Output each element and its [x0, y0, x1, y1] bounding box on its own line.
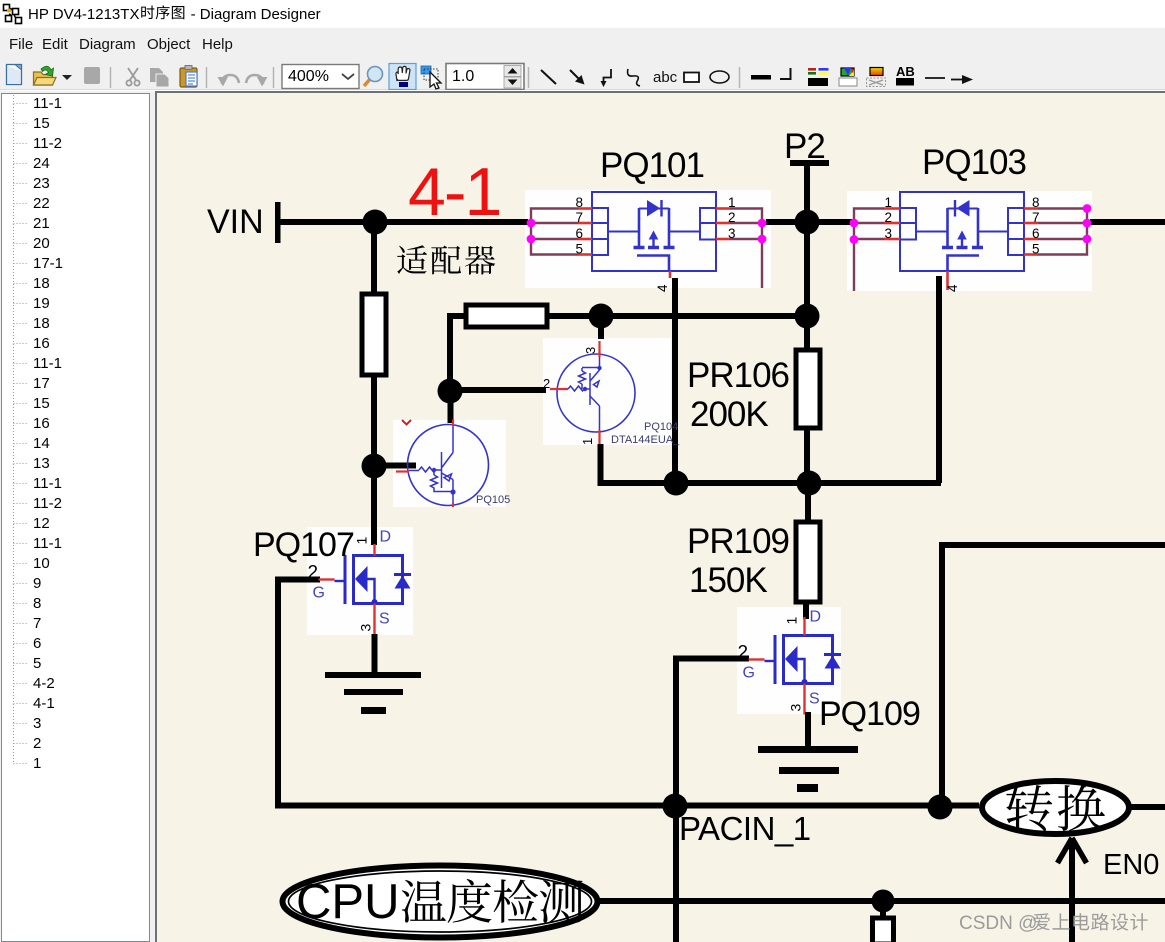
svg-text:2: 2: [543, 376, 550, 391]
svg-text:PQ101: PQ101: [600, 146, 704, 185]
svg-text:1: 1: [580, 438, 595, 445]
svg-text:1: 1: [784, 617, 800, 625]
wire PQ109 gate: [673, 656, 749, 662]
svg-text:8: 8: [33, 595, 41, 612]
svg-text:7: 7: [1032, 210, 1040, 225]
wire PQ109 source to ground: [805, 712, 811, 749]
svg-text:2: 2: [738, 643, 749, 664]
svg-text:CSDN @: CSDN @: [959, 913, 1037, 934]
svg-text:1.0: 1.0: [452, 68, 474, 85]
svg-text:18: 18: [33, 275, 50, 292]
svg-text:6: 6: [575, 226, 583, 241]
wire PQ101 to P2: [766, 219, 852, 225]
svg-text:11-1: 11-1: [33, 535, 62, 552]
node VIN junction: [363, 210, 388, 235]
svg-text:PQ107: PQ107: [253, 526, 354, 564]
svg-text:2: 2: [308, 563, 319, 584]
svg-text:11-1: 11-1: [33, 95, 62, 112]
resistor (bottom, cut off): [873, 918, 894, 942]
svg-text:PACIN_1: PACIN_1: [679, 810, 811, 847]
svg-text:8: 8: [1032, 195, 1040, 210]
svg-text:11-1: 11-1: [33, 475, 62, 492]
wire P2 down to PR106: [804, 222, 810, 351]
resistor (left vertical): [362, 294, 386, 375]
svg-text:2: 2: [884, 210, 892, 225]
VIN terminal bar: [275, 202, 281, 243]
transistor PQ104 (DTA144EUA digital PNP): [543, 341, 680, 446]
svg-text:4-1: 4-1: [408, 154, 500, 230]
svg-text:EN0: EN0: [1103, 849, 1159, 881]
svg-text:1: 1: [884, 195, 892, 210]
PQ104 datasheet image background: [543, 338, 671, 445]
svg-text:5: 5: [575, 242, 583, 257]
wire PR106 to junction: [804, 427, 810, 483]
svg-text:3: 3: [583, 347, 598, 354]
resistor (top horizontal): [466, 305, 547, 327]
svg-text:PR109: PR109: [687, 522, 789, 561]
resistor PR109: [796, 522, 820, 602]
wire PQ103 pin4 down: [936, 276, 942, 483]
svg-text:4-2: 4-2: [33, 675, 55, 692]
svg-text:3: 3: [33, 715, 41, 732]
svg-text:2: 2: [33, 735, 41, 752]
ground under PQ109: [758, 746, 858, 792]
svg-text:1: 1: [354, 537, 370, 545]
svg-text:14: 14: [33, 435, 50, 452]
PQ105 datasheet image background: [393, 420, 506, 507]
svg-text:2: 2: [728, 210, 736, 225]
wire right elbow down to PACIN_1: [939, 542, 945, 807]
node PQ104 base junction: [438, 379, 463, 404]
transistor PQ105 (digital PNP): [396, 420, 510, 508]
node junction to PQ105: [362, 454, 387, 479]
svg-text:6: 6: [1032, 226, 1040, 241]
node PACIN_1 right junction: [928, 795, 953, 820]
node P2/PR106 top junction: [795, 304, 820, 329]
svg-text:11-1: 11-1: [33, 355, 62, 372]
wire junction down to PQ105 collector: [448, 391, 454, 423]
wire junction to PQ104 base: [450, 387, 546, 393]
svg-text:19: 19: [33, 295, 50, 312]
wire PQ104 pin1 down: [598, 444, 604, 483]
svg-text:16: 16: [33, 335, 50, 352]
node bottom row junction 1: [664, 471, 689, 496]
svg-text:D: D: [810, 609, 822, 626]
svg-text:6: 6: [33, 635, 41, 652]
PQ103 datasheet image background: [847, 191, 1092, 291]
svg-text:200K: 200K: [690, 395, 768, 434]
svg-text:PQ105: PQ105: [476, 494, 510, 506]
wire VIN to PQ101: [280, 219, 528, 225]
node P2 junction: [795, 210, 820, 235]
svg-text:3: 3: [728, 226, 736, 241]
transistor PQ103 (dual MOSFET package, mirrored): [850, 143, 1092, 292]
svg-text:8: 8: [575, 195, 583, 210]
wire resistor to PQ107 drain: [371, 374, 377, 545]
svg-text:5: 5: [33, 655, 41, 672]
svg-text:DTA144EUA_: DTA144EUA_: [611, 434, 680, 446]
node junction on CPU wire: [872, 890, 895, 913]
wire PQ101 pin4 down: [672, 278, 678, 483]
node PACIN_1 junction: [663, 794, 688, 819]
svg-text:CPU: CPU: [296, 875, 399, 929]
svg-text:400%: 400%: [288, 68, 329, 85]
wire PACIN_1 net: [275, 803, 979, 809]
svg-text:18: 18: [33, 315, 50, 332]
svg-text:3: 3: [788, 704, 804, 712]
svg-text:11-2: 11-2: [33, 135, 62, 152]
svg-text:11-2: 11-2: [33, 495, 62, 512]
wire stub to small resistor: [880, 908, 886, 919]
wire bottom row horizontal: [598, 480, 942, 486]
svg-text:PQ103: PQ103: [922, 143, 1026, 182]
svg-text:13: 13: [33, 455, 50, 472]
svg-text:4-1: 4-1: [33, 695, 55, 712]
svg-text:PQ109: PQ109: [819, 695, 920, 733]
wire PQ107 source to ground: [372, 634, 378, 675]
svg-text:7: 7: [575, 210, 583, 225]
svg-text:7: 7: [33, 615, 41, 632]
flowchart ellipse CPU温度检测: [283, 866, 598, 938]
svg-text:PQ104: PQ104: [644, 421, 678, 433]
wire PQ103 to right edge: [1090, 219, 1165, 225]
svg-text:4: 4: [945, 284, 960, 292]
svg-text:1: 1: [33, 755, 41, 772]
svg-text:G: G: [743, 665, 755, 682]
svg-text:17: 17: [33, 375, 50, 392]
svg-text:15: 15: [33, 395, 50, 412]
svg-text:12: 12: [33, 515, 50, 532]
P2 terminal bar: [790, 160, 829, 166]
svg-text:20: 20: [33, 235, 50, 252]
transistor PQ107 (N-MOSFET): [253, 526, 411, 635]
wire junction to PR109: [805, 483, 811, 523]
svg-text:D: D: [380, 529, 392, 546]
svg-text:22: 22: [33, 195, 50, 212]
wire top junction down to PQ104 pin3: [598, 316, 604, 339]
svg-text:5: 5: [1032, 242, 1040, 257]
label 适配器: [397, 245, 427, 274]
svg-text:3: 3: [884, 226, 892, 241]
svg-text:150K: 150K: [689, 561, 767, 600]
svg-text:9: 9: [33, 575, 41, 592]
svg-text:21: 21: [33, 215, 50, 232]
wire PQ107 gate down to PACIN_1: [275, 577, 281, 808]
svg-text:10: 10: [33, 555, 50, 572]
svg-text:23: 23: [33, 175, 50, 192]
svg-text:1: 1: [728, 195, 736, 210]
PQ109 datasheet image background: [737, 607, 841, 714]
resistor PR106: [796, 350, 820, 428]
svg-text:24: 24: [33, 155, 50, 172]
svg-text:17-1: 17-1: [33, 255, 63, 272]
PQ107 datasheet image background: [307, 527, 413, 635]
svg-text:15: 15: [33, 115, 50, 132]
wire VIN junction down to resistor: [371, 222, 377, 295]
wire junction to PQ105 base: [374, 463, 416, 469]
wire 转换 to right edge: [1129, 804, 1165, 810]
svg-text:VIN: VIN: [207, 203, 264, 241]
wire elbow horizontal to resistor: [447, 313, 467, 319]
svg-text:AB: AB: [896, 64, 915, 79]
wire PQ109 gate down to PACIN_1: [673, 656, 679, 942]
PQ101 datasheet image background: [525, 190, 771, 288]
arrow EN0 into 转换: [1058, 838, 1073, 863]
transistor PQ101 (dual MOSFET package): [527, 146, 767, 292]
svg-text:G: G: [313, 585, 325, 602]
svg-text:S: S: [379, 611, 390, 628]
ground under PQ107: [325, 672, 421, 714]
svg-text:abc: abc: [653, 69, 678, 86]
svg-text:4: 4: [655, 284, 670, 292]
svg-text:PR106: PR106: [687, 356, 789, 395]
wire elbow down to PQ105 collector node: [447, 316, 453, 391]
wire PR109 to PQ109 drain: [803, 600, 809, 619]
wire P2 bar down: [804, 164, 810, 222]
transistor PQ109 (N-MOSFET): [738, 609, 920, 734]
wire CPU ellipse to right edge: [600, 898, 1165, 904]
flowchart ellipse 转换: [982, 781, 1129, 834]
wire right elbow to edge: [941, 542, 1165, 548]
wire top resistor row: [547, 313, 807, 319]
node top row junction: [589, 304, 614, 329]
svg-text:16: 16: [33, 415, 50, 432]
svg-text:3: 3: [358, 624, 374, 632]
wire PQ107 gate: [275, 577, 320, 583]
node bottom row junction 2: [797, 471, 822, 496]
